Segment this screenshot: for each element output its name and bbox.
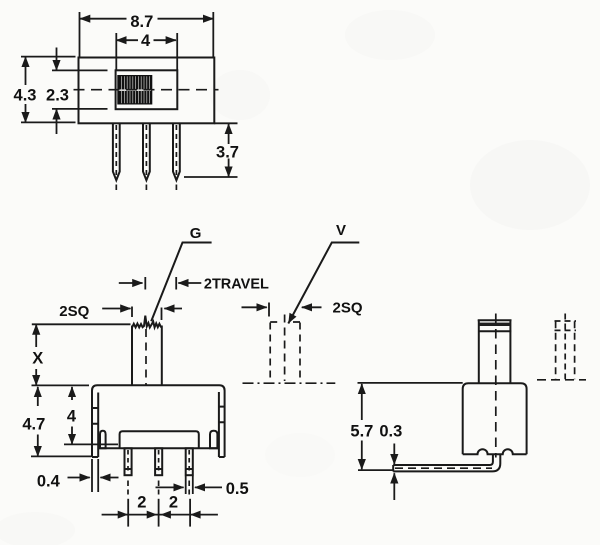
svg-text:4: 4 — [141, 32, 151, 50]
svg-text:0.3: 0.3 — [379, 422, 402, 440]
svg-text:0.4: 0.4 — [37, 472, 61, 490]
svg-text:2: 2 — [169, 494, 178, 512]
svg-text:2SQ: 2SQ — [332, 299, 362, 316]
svg-text:G: G — [190, 225, 202, 242]
svg-text:5.7: 5.7 — [350, 422, 373, 440]
svg-text:3.7: 3.7 — [216, 144, 239, 162]
svg-text:2.3: 2.3 — [46, 87, 69, 105]
svg-text:4.7: 4.7 — [22, 415, 45, 433]
svg-text:V: V — [336, 222, 346, 239]
svg-text:4: 4 — [67, 408, 77, 426]
svg-text:X: X — [32, 349, 43, 367]
svg-text:8.7: 8.7 — [130, 13, 153, 31]
svg-text:2: 2 — [137, 494, 146, 512]
svg-text:2TRAVEL: 2TRAVEL — [204, 277, 269, 293]
svg-text:2SQ: 2SQ — [59, 303, 89, 320]
svg-text:0.5: 0.5 — [226, 480, 249, 498]
svg-text:4.3: 4.3 — [14, 87, 37, 105]
